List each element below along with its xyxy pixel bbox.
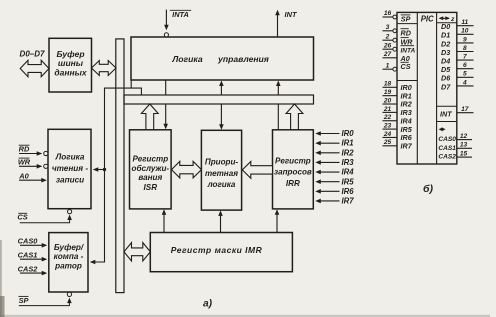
chip cell divider under SP	[397, 23, 417, 25]
svg-text:IR4: IR4	[342, 168, 355, 177]
svg-text:обслужи-: обслужи-	[132, 164, 170, 173]
svg-text:IR7: IR7	[342, 197, 355, 206]
chip pin 16 (SP)	[383, 10, 397, 19]
wire fat up arrow ISR to bus bar	[141, 104, 158, 130]
wire fat bidirectional arrow ISR to priority logic	[172, 161, 202, 178]
pin IR0 input	[315, 129, 354, 138]
svg-text:WR: WR	[18, 158, 31, 167]
pin SP input	[19, 292, 72, 305]
block interrupt request register IRR	[273, 130, 314, 209]
block read/write logic	[48, 129, 91, 208]
svg-text:ратор: ратор	[54, 261, 82, 270]
block in-service register ISR	[130, 130, 172, 209]
svg-text:чтения -: чтения -	[52, 164, 89, 173]
svg-text:WR: WR	[401, 37, 414, 46]
node junction on branch line	[103, 168, 106, 171]
wire branch from bus to left control column	[91, 88, 131, 262]
svg-text:D0–D7: D0–D7	[20, 49, 45, 58]
svg-text:SP: SP	[19, 296, 29, 305]
svg-text:10: 10	[461, 28, 469, 35]
svg-text:компа -: компа -	[54, 252, 84, 261]
svg-text:CAS2: CAS2	[18, 264, 39, 273]
svg-text:D7: D7	[441, 82, 451, 91]
chip pin 22 (IR4)	[383, 114, 412, 125]
pin IR1 input	[315, 139, 353, 148]
bus bar (horizontal internal bus under control logic)	[124, 95, 314, 104]
svg-text:данных: данных	[54, 67, 88, 77]
svg-text:RD: RD	[19, 145, 30, 154]
svg-text:вания: вания	[138, 173, 162, 182]
pin IR4 input	[315, 168, 354, 177]
scan artifact: bottom edge shadow	[0, 315, 490, 317]
block priority logic	[201, 130, 241, 210]
svg-text:6: 6	[463, 62, 467, 69]
wire IMR to ISR (up arrow)	[163, 212, 165, 233]
svg-text:управления: управления	[217, 54, 269, 64]
pin IR2 input	[315, 148, 354, 157]
svg-text:IR1: IR1	[342, 139, 354, 148]
pin INT output	[275, 10, 298, 37]
chip pin 13 (CAS1)	[438, 142, 472, 152]
block data bus buffer	[49, 38, 92, 92]
svg-text:1: 1	[386, 62, 390, 69]
pin RD input	[19, 145, 48, 156]
wire fat up arrow IRR to bus bar	[286, 104, 303, 130]
chip pin 25 (IR7)	[383, 139, 413, 150]
chip pin label WR	[401, 37, 414, 46]
svg-text:27: 27	[383, 51, 392, 58]
svg-text:Буфер/: Буфер/	[54, 243, 84, 252]
svg-text:SP: SP	[401, 14, 411, 23]
svg-text:запросов: запросов	[274, 168, 312, 177]
wire IMR to priority logic (up arrow)	[220, 213, 222, 233]
chip pin 19 (IR1)	[383, 89, 412, 100]
svg-text:ISR: ISR	[144, 183, 158, 192]
chip pin 21 (IR3)	[383, 106, 412, 117]
chip pin 24 (IR6)	[383, 131, 413, 142]
svg-text:б): б)	[423, 183, 434, 195]
chip pin 15 (CAS2)	[438, 151, 472, 161]
svg-text:CAS0: CAS0	[18, 237, 39, 246]
wire IMR to IRR (up arrow)	[276, 212, 278, 233]
chip divider right column	[436, 12, 438, 164]
svg-text:IR5: IR5	[342, 177, 355, 186]
svg-text:22: 22	[383, 114, 392, 121]
pin WR input	[18, 158, 48, 169]
svg-text:записи: записи	[56, 176, 84, 185]
internal data bus (vertical)	[116, 39, 124, 293]
block interrupt mask register IMR	[150, 233, 292, 272]
chip pin 5 (D6)	[441, 71, 474, 83]
chip bidirectional tri-state marker	[439, 16, 455, 23]
svg-text:z: z	[450, 16, 455, 23]
chip pin label CS	[401, 62, 411, 71]
svg-text:9: 9	[463, 36, 467, 43]
svg-text:2: 2	[385, 33, 390, 40]
svg-text:CAS1: CAS1	[438, 145, 456, 152]
pin CAS1 input	[18, 250, 48, 261]
chip pin label RD	[401, 28, 411, 37]
chip pin label SP	[401, 14, 411, 23]
chip pin 9 (D2)	[441, 36, 474, 48]
svg-text:шины: шины	[58, 58, 84, 68]
svg-text:PIC: PIC	[421, 15, 434, 24]
chip pin 17 (INT)	[440, 106, 474, 119]
pin IR7 input	[315, 197, 354, 206]
wire control-logic step down to bus bar	[131, 80, 141, 96]
wire control logic to ISR (down arrow)	[165, 80, 167, 95]
svg-text:8: 8	[463, 45, 467, 52]
svg-text:CAS2: CAS2	[438, 154, 456, 161]
svg-text:INT: INT	[440, 110, 452, 119]
svg-text:IR6: IR6	[342, 187, 355, 196]
chip cell divider under bidir marker	[437, 22, 457, 24]
chip cell divider above INT	[437, 105, 457, 107]
chip cascade bidirectional marker	[439, 127, 446, 131]
svg-text:Регистр: Регистр	[132, 155, 168, 164]
chip cell divider under CS	[397, 80, 417, 82]
svg-text:7: 7	[463, 54, 467, 61]
chip PIC outline	[397, 12, 457, 164]
svg-text:IR2: IR2	[342, 148, 355, 157]
chip pin 26 (INTA)	[383, 42, 397, 51]
chip pin 18 (IR0)	[383, 81, 412, 92]
pin IR5 input	[315, 177, 354, 186]
svg-text:RD: RD	[401, 28, 411, 37]
svg-text:тетная: тетная	[205, 169, 238, 178]
chip pin 8 (D3)	[441, 45, 474, 57]
svg-text:21: 21	[383, 106, 392, 113]
chip pin 7 (D4)	[441, 54, 474, 66]
svg-text:26: 26	[383, 42, 392, 49]
svg-text:INTA: INTA	[172, 10, 189, 19]
chip pin 27 (A0)	[383, 51, 398, 58]
pin IR6 input	[315, 187, 354, 196]
chip pin 12 (CAS0)	[438, 133, 472, 143]
chip pin 6 (D5)	[441, 62, 474, 74]
svg-text:а): а)	[203, 299, 213, 310]
svg-text:IR0: IR0	[342, 129, 355, 138]
svg-text:CS: CS	[401, 62, 411, 71]
pin INTA input	[164, 10, 191, 37]
wire priority logic to control (up arrow) and bar to priority (down arrow)	[220, 83, 222, 95]
svg-text:25: 25	[383, 139, 392, 146]
wire fat arrow IRR to priority logic	[242, 162, 272, 179]
svg-text:Регистр маски IMR: Регистр маски IMR	[171, 245, 263, 255]
svg-text:24: 24	[383, 131, 392, 138]
svg-text:INT: INT	[285, 10, 298, 19]
wire IRR to control (up arrow)	[277, 83, 279, 95]
pin CAS0 input	[18, 237, 48, 248]
wire fat bidirectional arrow bus to IMR	[124, 243, 150, 261]
chip pin label INTA	[401, 46, 416, 55]
svg-text:13: 13	[460, 142, 468, 149]
chip pin 20 (IR2)	[383, 97, 412, 108]
chip pin 10 (D1)	[441, 28, 474, 40]
wire fat bidirectional arrow D0-D7 to buffer	[20, 60, 49, 76]
chip pin 1 (CS)	[383, 62, 397, 71]
svg-text:логика: логика	[207, 180, 236, 189]
svg-text:Регистр: Регистр	[275, 157, 311, 166]
svg-text:Логика: Логика	[55, 153, 85, 162]
svg-text:A0: A0	[18, 171, 29, 180]
svg-text:IR7: IR7	[401, 142, 413, 151]
chip pin 4 (D7)	[441, 79, 474, 91]
chip pin 11 (D0)	[441, 19, 474, 31]
chip divider left column	[416, 12, 418, 164]
svg-text:5: 5	[463, 71, 467, 78]
svg-text:11: 11	[461, 19, 468, 26]
pin CAS2 input	[18, 264, 48, 275]
svg-text:CS: CS	[17, 213, 27, 222]
svg-text:19: 19	[384, 89, 392, 96]
pin CS input	[17, 210, 72, 223]
svg-text:3: 3	[386, 24, 390, 31]
wire branch into read/write logic	[94, 169, 105, 171]
svg-text:IRR: IRR	[286, 179, 300, 188]
svg-text:CAS1: CAS1	[18, 250, 38, 259]
chip pin 23 (IR5)	[383, 123, 413, 134]
chip pin label A0	[400, 54, 410, 63]
svg-text:12: 12	[460, 133, 468, 140]
svg-text:4: 4	[462, 79, 467, 86]
chip pin 2 (WR)	[383, 33, 397, 42]
block control logic	[131, 37, 314, 80]
svg-text:18: 18	[384, 81, 392, 88]
svg-text:CAS0: CAS0	[438, 136, 456, 143]
svg-text:20: 20	[383, 97, 392, 104]
block cascade buffer/comparator	[49, 233, 88, 292]
svg-text:Приори-: Приори-	[205, 157, 239, 166]
scan artifact: left edge shadow	[0, 240, 2, 317]
wire fat bidirectional arrow buffer to internal bus	[92, 61, 117, 76]
svg-text:23: 23	[383, 123, 392, 130]
pin IR3 input	[315, 158, 354, 167]
svg-text:IR3: IR3	[342, 158, 355, 167]
svg-text:15: 15	[460, 151, 468, 158]
chip pin 3 (RD)	[383, 24, 397, 33]
pin A0 input	[18, 171, 47, 182]
chip cell divider below INT	[437, 121, 457, 123]
svg-text:Логика: Логика	[171, 54, 202, 64]
svg-text:16: 16	[384, 10, 392, 17]
svg-text:17: 17	[461, 106, 469, 113]
